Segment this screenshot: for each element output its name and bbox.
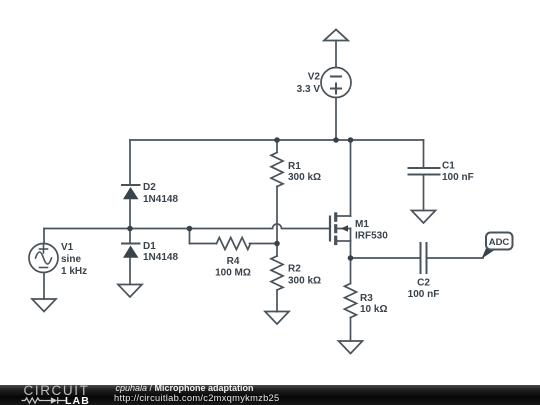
source V1 [29,244,58,273]
node rail-R1 [274,137,280,143]
svg-text:R3: R3 [360,293,373,304]
capacitor C2 [421,243,427,273]
wire source node down [350,258,352,284]
wire D2 to node [129,199,131,228]
junction dots [127,137,353,261]
resistor R1 [271,140,283,244]
svg-text:LAB: LAB [65,395,90,405]
logo symbol row [22,397,66,404]
wire V2 to rail [335,98,337,141]
svg-text:sine: sine [61,254,81,265]
svg-text:100 nF: 100 nF [408,289,440,300]
node rail-V2 [333,137,339,143]
diode D2 [122,185,140,199]
node D1-D2 [127,226,133,232]
transistor M1 [330,212,351,258]
capacitor C1 [409,140,440,211]
node gate-R4 [187,226,193,232]
svg-text:IRF530: IRF530 [355,231,388,242]
svg-text:R2: R2 [288,264,301,275]
svg-text:1N4148: 1N4148 [143,252,178,263]
svg-text:D2: D2 [143,182,156,193]
wire top rail [130,139,424,141]
ground (C1) [412,211,436,224]
svg-text:V2: V2 [308,72,321,83]
svg-text:10 kΩ: 10 kΩ [360,304,387,315]
ground (R2) [265,312,289,325]
resistor R2 [271,244,283,312]
wire rail to D2 [129,140,131,184]
svg-text:V1: V1 [61,242,74,253]
footer bar [0,385,540,405]
wire node to C2 [351,257,421,259]
diode D1 [122,244,140,258]
wire V1 to ground [43,273,45,300]
node R1-R4-R2 [274,241,280,247]
svg-text:3.3 V: 3.3 V [297,84,321,95]
svg-text:R1: R1 [288,161,301,172]
ground (R3) [339,341,363,354]
svg-text:1 kHz: 1 kHz [61,266,87,277]
svg-text:cpuhala / Microphone adaptatio: cpuhala / Microphone adaptation [116,383,254,393]
resistor R4 [190,229,278,250]
svg-text:300 kΩ: 300 kΩ [288,275,321,286]
svg-text:M1: M1 [355,219,369,230]
svg-text:http://circuitlab.com/c2mxqmyk: http://circuitlab.com/c2mxqmykmzb25 [114,393,280,403]
svg-text:R4: R4 [227,256,240,267]
svg-text:100 MΩ: 100 MΩ [215,268,251,279]
wire D1 to ground [129,258,131,285]
ground (D1) [118,285,142,298]
wire node to D1 [129,229,131,243]
svg-text:1N4148: 1N4148 [143,194,178,205]
svg-text:100 nF: 100 nF [442,172,474,183]
svg-text:D1: D1 [143,241,156,252]
node rail-drain [348,137,354,143]
svg-text:C2: C2 [417,278,430,289]
svg-text:300 kΩ: 300 kΩ [288,172,321,183]
flag ADC [482,233,513,259]
svg-text:C1: C1 [442,161,455,172]
ground (V1) [32,299,56,312]
voltage source V2 [321,68,351,98]
wire C2 to ADC [427,257,484,259]
wire gate net left [44,224,330,229]
wire drain [350,140,352,216]
resistor R3 [345,284,357,342]
node source-R3-C2 [348,255,354,261]
svg-text:ADC: ADC [489,237,510,248]
power flag VDD [324,30,348,68]
wire V1 stem [43,229,45,244]
